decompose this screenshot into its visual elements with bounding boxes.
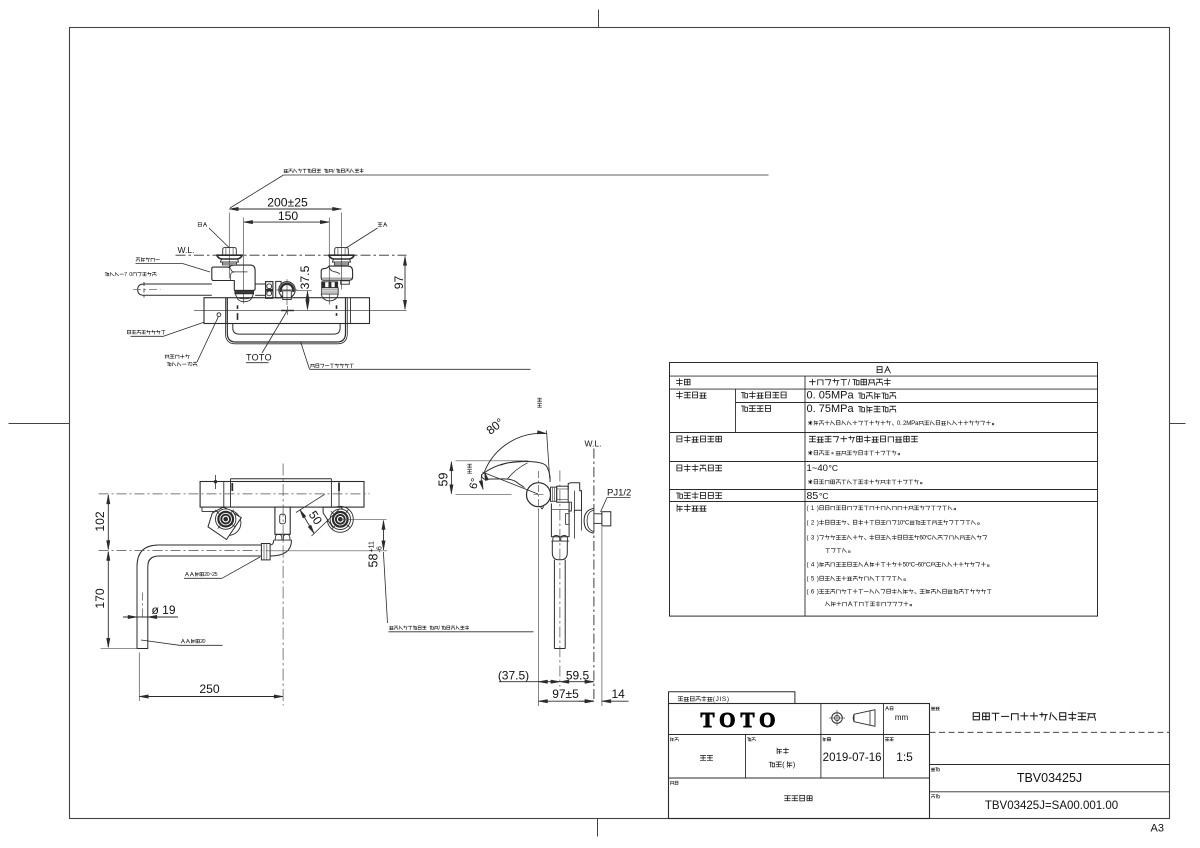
svg-text:0. 75MPa: 0. 75MPa <box>807 403 855 415</box>
right leg insulation cover <box>321 266 352 280</box>
svg-text:1~40: 1~40 <box>807 463 828 474</box>
svg-text:ø 19: ø 19 <box>152 603 176 617</box>
lower cylinder (side) <box>552 541 567 560</box>
svg-text:W.L.: W.L. <box>178 245 195 255</box>
svg-text:2019-07-16: 2019-07-16 <box>823 752 882 764</box>
svg-text:W.L.: W.L. <box>585 439 602 449</box>
svg-text:70: 70 <box>187 362 193 368</box>
approver name <box>700 756 705 761</box>
svg-text:102: 102 <box>93 511 107 532</box>
arch handle outer <box>227 298 345 342</box>
dimension phi19 <box>123 616 178 618</box>
label open/close arch handle <box>311 364 315 367</box>
80 degree arc <box>485 433 547 471</box>
label safety button (grey 70) <box>165 355 169 358</box>
svg-text:10°C: 10°C <box>897 520 910 527</box>
row2 corner labels <box>671 738 674 742</box>
row: max hot water temp <box>676 493 682 498</box>
arch handle inner <box>233 324 340 335</box>
table header <box>877 367 882 373</box>
left centre tick <box>9 423 70 425</box>
tiny label stop water <box>538 398 542 402</box>
svg-text:85: 85 <box>807 490 819 502</box>
svg-text:20~25: 20~25 <box>204 572 218 578</box>
svg-text:A3: A3 <box>1151 823 1164 835</box>
closed lever phantom line <box>547 431 550 479</box>
unit cell <box>886 707 889 711</box>
inlet centre ticks <box>237 305 239 309</box>
row: ambient temperature <box>677 465 682 471</box>
leader label: piping pitch case (top) <box>284 170 288 173</box>
plan body cylinder <box>200 482 364 508</box>
left leg insulation cover <box>212 265 255 290</box>
svg-text:0. 2MPa: 0. 2MPa <box>897 420 919 427</box>
body cylinder (front) <box>204 298 370 324</box>
right leg thread nut <box>322 288 339 294</box>
svg-text:°C: °C <box>829 463 839 473</box>
svg-text:(2): (2) <box>807 520 819 527</box>
right leg bell <box>321 294 338 301</box>
svg-text:(JIS): (JIS) <box>713 696 729 703</box>
PJ1/2 nipple <box>594 514 602 524</box>
safety button <box>217 313 221 317</box>
svg-text:150: 150 <box>278 209 299 223</box>
lever blade (side) <box>482 475 525 488</box>
svg-text:TOTO: TOTO <box>246 353 272 363</box>
row: use <box>676 379 682 386</box>
corner labels right <box>931 707 935 710</box>
plan body centreline <box>99 493 370 495</box>
left leg lower union <box>235 290 254 293</box>
dimension 50 (leg offset) <box>296 494 325 512</box>
wall line (side) <box>593 449 595 702</box>
leader label piping pitch (second) <box>390 627 394 630</box>
svg-text:97±5: 97±5 <box>552 687 579 701</box>
union bumps (side) <box>553 536 560 542</box>
wall flange dish <box>329 255 355 259</box>
pipe centreline dashes <box>141 593 143 619</box>
svg-text:+11: +11 <box>369 541 376 552</box>
safety button mark (plan) <box>215 475 217 489</box>
right leg (plan) <box>327 506 353 532</box>
svg-text:0. 05MPa: 0. 05MPa <box>807 390 855 402</box>
left leg (plan) <box>216 510 241 535</box>
dimension 58 +11/-6 <box>383 521 385 550</box>
label hot side (yu-gawa) <box>198 223 201 227</box>
svg-text:(1): (1) <box>807 505 819 512</box>
JIS tab <box>669 692 795 704</box>
svg-text:mm: mm <box>895 713 909 722</box>
row: special notes <box>677 505 682 511</box>
label temperature control handle <box>127 330 130 334</box>
right centre tick <box>1170 423 1186 425</box>
svg-text:50°C~60°C: 50°C~60°C <box>903 562 931 569</box>
title block frame <box>669 704 930 819</box>
check valve column (side) <box>551 502 569 537</box>
svg-text:(5): (5) <box>807 576 819 583</box>
svg-text:60°C: 60°C <box>919 535 932 542</box>
svg-text:PJ1/2: PJ1/2 <box>607 488 631 499</box>
body centre mark <box>281 310 294 312</box>
svg-text:(3): (3) <box>807 535 819 542</box>
svg-text:200±25: 200±25 <box>267 196 308 210</box>
svg-text:97: 97 <box>392 276 406 290</box>
centre diverter circle <box>279 282 295 298</box>
wall flange hex nut <box>223 248 237 256</box>
elbow (plan) <box>270 540 291 556</box>
svg-text:(37.5): (37.5) <box>498 669 529 683</box>
svg-text:14: 14 <box>612 687 626 701</box>
wall bracket (side) <box>568 483 581 513</box>
spout centreline dash <box>133 289 161 291</box>
svg-text:-6: -6 <box>377 546 384 552</box>
product name <box>973 713 979 720</box>
label insertion allowance 20 <box>181 639 184 643</box>
svg-text:(4): (4) <box>807 562 819 569</box>
diverter union bumps <box>275 534 282 540</box>
bottom centre tick <box>597 819 599 837</box>
row: usable water <box>677 436 682 442</box>
label insertion allowance 20-25 <box>185 572 188 576</box>
svg-text:(6): (6) <box>807 589 819 596</box>
open lever line 6deg <box>482 472 538 494</box>
spout union nut (plan) <box>261 544 270 560</box>
svg-text:250: 250 <box>199 682 220 696</box>
check valve block <box>266 282 273 299</box>
svg-text:1:5: 1:5 <box>896 750 913 764</box>
right section of title block <box>930 764 1170 766</box>
checker names <box>777 748 782 754</box>
label insulation cover (grey 70 matte) <box>136 258 140 262</box>
spout pipe (front) <box>138 284 212 295</box>
bottom dims (side view) <box>538 509 540 706</box>
third angle projection symbol <box>832 713 843 724</box>
svg-text:°C: °C <box>819 491 829 501</box>
body circle (side) <box>527 483 551 507</box>
note: with check valve <box>785 796 791 801</box>
tiny label flow water <box>468 464 472 468</box>
union stripes (side) <box>551 487 557 501</box>
svg-text:TOTO: TOTO <box>701 708 781 732</box>
wall flange (side) <box>584 508 594 533</box>
wall flange dish <box>217 255 243 259</box>
flange thread rings <box>332 259 350 262</box>
left cap step (plan) <box>202 507 221 511</box>
svg-text:TBV03425J=SA00.001.00: TBV03425J=SA00.001.00 <box>985 800 1118 812</box>
spout pipe L (plan) <box>137 545 261 649</box>
svg-text:TBV03425J: TBV03425J <box>1017 771 1082 785</box>
top centre tick <box>598 10 600 28</box>
svg-text:37.5: 37.5 <box>298 265 312 289</box>
diverter centreline (plan) <box>282 464 284 706</box>
union ticks (plan) <box>231 483 233 491</box>
outlet pipe (side) <box>553 560 555 649</box>
label water side (mizu-gawa) <box>378 223 382 227</box>
svg-text:58: 58 <box>367 554 381 568</box>
svg-text:20: 20 <box>200 639 205 645</box>
flange thread rings <box>220 259 238 262</box>
right leg castellated union <box>321 281 338 287</box>
row: supply pressure <box>676 392 682 399</box>
specification table <box>670 363 1098 617</box>
svg-text:59: 59 <box>437 473 451 487</box>
diverter housing (plan) <box>275 507 290 534</box>
svg-text:170: 170 <box>93 588 107 609</box>
wall flange hex nut <box>335 248 349 256</box>
